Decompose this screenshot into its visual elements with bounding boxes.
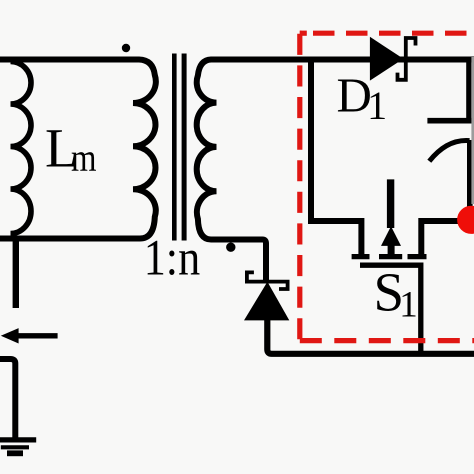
svg-text:1: 1 xyxy=(367,83,387,128)
svg-text:m: m xyxy=(71,137,97,180)
svg-text:1:n: 1:n xyxy=(144,230,201,286)
svg-text:1: 1 xyxy=(399,285,418,326)
